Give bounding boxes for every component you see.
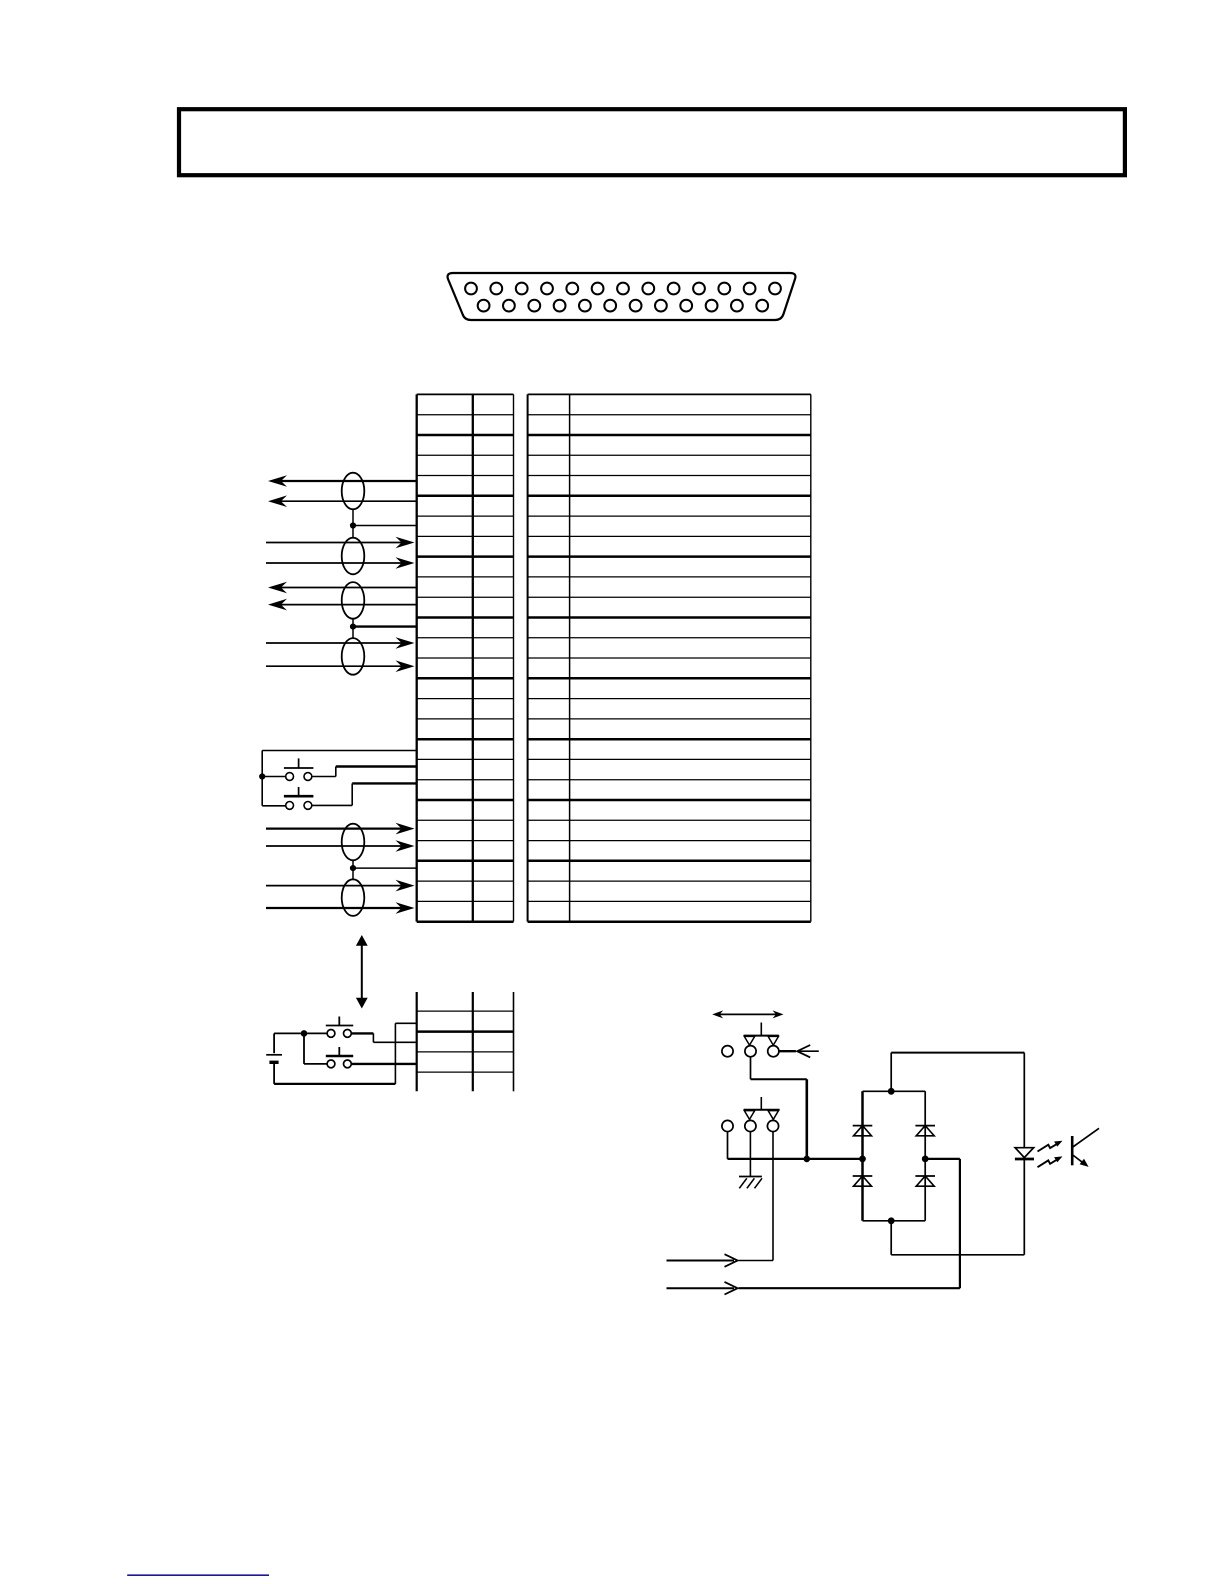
wire input 1 to K2 pin3 xyxy=(739,1260,773,1262)
ground xyxy=(739,1177,762,1189)
wire K1 pin2 to bridge AC1 (bold vertical) xyxy=(751,1057,807,1159)
wire K2 pin3 down to input line xyxy=(772,1132,774,1261)
node AC2 (bridge right) xyxy=(922,1156,929,1163)
wire input signal arrow (to device) y=666.2 xyxy=(266,660,415,672)
wire common top (row18) xyxy=(262,750,417,752)
diode D2 (bridge left bottom) xyxy=(853,1176,873,1186)
diode D3 (bridge right top) xyxy=(915,1126,935,1136)
contact K1 terminal pins xyxy=(722,1046,779,1057)
DB-25 connector pin holes row 2 (pins 14-25) xyxy=(478,300,768,312)
push-button switch S4 xyxy=(326,1047,353,1068)
wire K2 pin1 to AC line xyxy=(728,1132,863,1159)
wire S4 to aux table row3 (bold) xyxy=(351,1063,416,1065)
contact K2 triangle a xyxy=(744,1111,754,1120)
footer rule (blue) xyxy=(127,1574,269,1576)
wire DC- return to LED cathode xyxy=(891,1160,1024,1255)
contact K1 triangle b xyxy=(768,1036,778,1045)
bridge rectifier outline xyxy=(863,1091,926,1221)
wire battery top to node E xyxy=(274,1033,301,1053)
wire node E down to S4 xyxy=(304,1033,327,1064)
wire output signal arrow (to host) y=481.0 xyxy=(268,475,417,487)
twisted pair ellipse T5 xyxy=(342,824,365,861)
wire T1-T2 link with junction xyxy=(352,509,354,537)
junction node B xyxy=(350,624,356,630)
junction node F (AC line / K1 branch) xyxy=(804,1156,811,1163)
junction node A xyxy=(350,522,356,528)
wire output signal arrow (to host) y=604.6 xyxy=(268,599,417,611)
diode D1 (bridge left top) xyxy=(853,1126,873,1136)
wire input signal arrow (to device) y=643.0 xyxy=(266,637,415,649)
wire common left vertical xyxy=(261,751,263,806)
wire bridge AC2 to input 2 vertical xyxy=(925,1159,960,1288)
DB-25 connector pin holes row 1 (pins 1-13) xyxy=(465,283,781,295)
wire input 2 to bridge AC2 (bold) xyxy=(739,1287,960,1289)
contact K2 triangle b xyxy=(768,1111,778,1120)
light arrow 2 (LED to phototransistor) xyxy=(1038,1156,1063,1167)
contact K1 triangle a xyxy=(744,1036,754,1045)
twisted pair ellipse T6 xyxy=(342,879,365,916)
node AC1 (bridge left) xyxy=(859,1156,866,1163)
wire T3-T4 link xyxy=(352,619,354,639)
push-button switch S2 xyxy=(262,787,313,809)
wire battery bottom return loop xyxy=(274,1023,417,1084)
signal name table (right) grid xyxy=(528,394,811,921)
wire K1 pin3 stub xyxy=(779,1050,796,1052)
battery B1 xyxy=(266,1055,282,1063)
light arrow 1 (LED to phototransistor) xyxy=(1038,1141,1063,1152)
changeover contact K2 actuator xyxy=(744,1097,780,1110)
node DC- (bridge bottom) xyxy=(888,1217,895,1224)
wire DC+ to LED anode xyxy=(891,1053,1024,1148)
input signal arrow 2 xyxy=(667,1282,738,1295)
push-button switch S3 xyxy=(304,1017,353,1038)
wire K2 pin2 to ground xyxy=(749,1132,751,1177)
LED of optocoupler U1 xyxy=(1015,1148,1034,1159)
wire T5-T6 link xyxy=(352,860,354,879)
twisted pair ellipse T1 xyxy=(342,473,365,510)
junction node C xyxy=(259,773,265,779)
wire output signal arrow (to host) y=501.2 xyxy=(268,495,417,507)
wire input signal arrow (to device) y=846.0 xyxy=(266,840,415,852)
wire output signal arrow (to host) y=587.5 xyxy=(268,582,417,594)
wire input signal arrow (to device) y=563.0 xyxy=(266,557,415,569)
phototransistor Q1 of optocoupler U1 xyxy=(1072,1128,1099,1167)
input signal arrow 1 xyxy=(667,1254,738,1267)
wire input signal arrow (to device) y=828.6 xyxy=(266,823,415,835)
wire S3 to aux table row2 xyxy=(351,1033,416,1042)
wire input signal arrow (to device) y=885.6 xyxy=(266,880,415,892)
junction node D xyxy=(350,865,356,871)
wire junction B to table (bold) xyxy=(353,625,417,627)
wire S1 to table (bold row19) xyxy=(312,767,417,777)
push-button switch S1 xyxy=(262,758,313,780)
contact K2 terminal pins xyxy=(722,1120,779,1131)
incoming signal arrow to K1 xyxy=(797,1045,819,1057)
wire S2 to table (bold row20) xyxy=(312,783,417,805)
bidirectional arrow between tables xyxy=(356,935,368,1009)
twisted pair ellipse T4 xyxy=(342,638,365,675)
changeover contact K1 actuator xyxy=(744,1023,779,1036)
bidirectional arrow (carriage) xyxy=(712,1010,783,1018)
title box xyxy=(179,109,1125,175)
wire junction A to table xyxy=(353,525,417,527)
pin number table (left) grid xyxy=(417,394,514,921)
auxiliary pin table grid xyxy=(417,992,514,1091)
twisted pair ellipse T2 xyxy=(342,538,365,575)
wire input signal arrow (to device) y=542.5 xyxy=(266,537,415,549)
wire junction D to table xyxy=(353,867,417,869)
DB-25 connector CN1 outline xyxy=(448,273,796,320)
wire input signal arrow (to device) y=908.0 xyxy=(266,902,415,914)
diode D4 (bridge right bottom) xyxy=(915,1176,935,1186)
junction node E xyxy=(301,1030,308,1037)
twisted pair ellipse T3 xyxy=(342,582,365,619)
node DC+ (bridge top) xyxy=(888,1088,895,1095)
